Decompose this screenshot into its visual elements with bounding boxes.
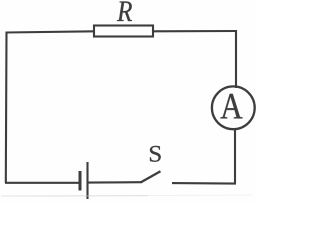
wire right vertical upper xyxy=(235,30,237,88)
ammeter label A xyxy=(220,94,242,118)
wire left vertical xyxy=(5,32,8,183)
battery short plate (negative) xyxy=(79,171,82,191)
wire top left segment xyxy=(6,31,96,32)
scan smudge faint right xyxy=(148,194,252,197)
battery long plate (positive) xyxy=(86,162,88,199)
wire bottom right segment xyxy=(172,182,236,185)
label S xyxy=(150,146,161,162)
wire bottom left segment xyxy=(5,182,79,184)
ammeter U1 circle xyxy=(212,86,255,129)
switch S lever xyxy=(141,171,161,182)
scan smudge xyxy=(1,195,148,198)
label R xyxy=(117,2,132,21)
wire right vertical lower xyxy=(234,129,236,184)
resistor R xyxy=(94,26,153,37)
wire top right segment xyxy=(153,30,237,32)
wire bottom middle segment xyxy=(87,181,142,184)
